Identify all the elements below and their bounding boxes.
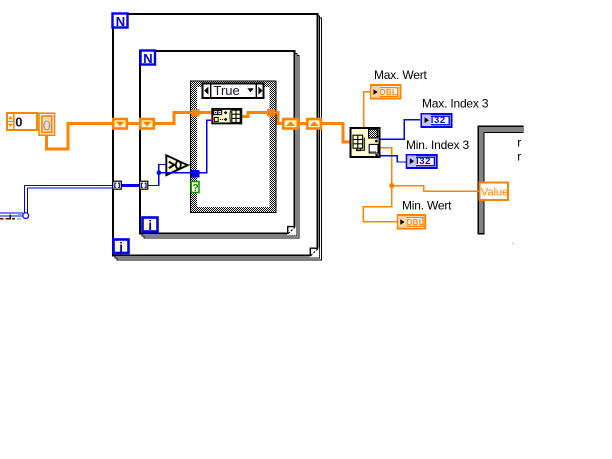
- svg-text:0: 0: [43, 118, 51, 134]
- case selector label "True": [203, 83, 264, 98]
- red coercion marker: [211, 117, 214, 121]
- outer left shift register: [113, 119, 127, 129]
- outer loop stacked frame line 2: [117, 18, 322, 260]
- numeric control terminal: [7, 113, 37, 130]
- case blue tunnel: [191, 170, 199, 178]
- broken wire marks at left edge: [0, 212, 21, 220]
- blue 1D wire between loop tunnels: [121, 184, 140, 187]
- svg-text:I32: I32: [416, 156, 431, 167]
- outer for-loop border: [113, 14, 318, 256]
- inner loop stacked frame line 2: [144, 56, 299, 238]
- green boolean stub wire at comparison output: [188, 164, 192, 166]
- blue wire: junction to case blue tunnel: [158, 172, 191, 173]
- inner left shift register: [140, 119, 154, 129]
- svg-text:I32: I32: [431, 115, 446, 126]
- blue 2D-array wire from left edge: [0, 185, 113, 216]
- case structure hatched border: [191, 81, 276, 213]
- wire bend circle: [23, 213, 29, 219]
- blue wire: node to Max Index 3: [381, 119, 421, 140]
- svg-text:i: i: [148, 218, 152, 233]
- case left orange tunnel: [191, 109, 199, 117]
- blue wire: node to Min Index 3: [381, 155, 407, 163]
- svg-text:True: True: [214, 83, 240, 98]
- orange junction dot: [389, 183, 394, 188]
- svg-text:?: ?: [193, 183, 199, 194]
- case right orange tunnel: [267, 109, 275, 117]
- svg-text:DBL: DBL: [380, 88, 397, 97]
- svg-text:Value: Value: [481, 187, 508, 199]
- stray orange pixel: [512, 243, 514, 245]
- svg-text:Min. Index 3: Min. Index 3: [406, 138, 469, 152]
- outer loop stacked frame line 1: [115, 16, 320, 258]
- orange wire: between shift registers: [128, 122, 140, 125]
- inner loop i box: [143, 218, 158, 233]
- blue junction dot: [157, 170, 162, 175]
- inner right shift register: [283, 119, 298, 129]
- numeric constant 0: [39, 113, 55, 135]
- Max Index 3 I32 indicator: [422, 114, 452, 127]
- Array Max and Min node: [351, 128, 381, 157]
- Min Wert DBL indicator: [398, 215, 425, 229]
- inner loop page-fold corner: [287, 226, 296, 235]
- orange wire: constant to outer shift register: [45, 122, 113, 151]
- inner loop N box: [141, 51, 156, 66]
- orange wire: node min output down to junction and Min Wert: [363, 147, 398, 223]
- orange wire: outer shift register to Array Max Min node: [322, 122, 351, 144]
- svg-text:Min. Wert: Min. Wert: [402, 198, 452, 212]
- blue wire: case tunnel up to icon index input: [200, 120, 212, 174]
- Max Wert DBL indicator: [371, 85, 401, 99]
- inner loop indexing tunnel: [140, 181, 148, 189]
- orange wire: node to Max Wert indicator: [363, 91, 370, 127]
- outer loop indexing tunnel: [113, 181, 122, 189]
- blue scalar wire: inner tunnel to greater-than-zero: [148, 164, 167, 186]
- outer loop N box: [113, 14, 128, 29]
- orange wire: case right tunnel to inner right shift register: [276, 111, 284, 125]
- svg-text:DBL: DBL: [407, 218, 424, 227]
- case selector terminal: [191, 182, 199, 195]
- insert into array icon: [212, 109, 241, 124]
- greater-than-zero comparison: [166, 155, 187, 175]
- orange wire: case left tunnel to insert-array icon: [200, 111, 212, 114]
- Min Index 3 I32 indicator: [407, 155, 437, 168]
- inner loop stacked frame line 1: [142, 54, 297, 237]
- svg-text:0: 0: [15, 115, 22, 130]
- outer loop page-fold corner: [310, 247, 319, 257]
- svg-text:N: N: [143, 51, 152, 66]
- inner for-loop border: [140, 51, 295, 234]
- svg-text:r: r: [517, 149, 521, 163]
- svg-text:r: r: [517, 135, 521, 149]
- outer right shift register: [307, 119, 321, 129]
- Value property node: [480, 183, 509, 201]
- svg-text:Max. Index 3: Max. Index 3: [422, 97, 489, 111]
- svg-text:Max. Wert: Max. Wert: [374, 68, 428, 82]
- svg-text:i: i: [119, 240, 123, 255]
- orange wire: junction to Value property node: [391, 185, 479, 192]
- gray frame structure (right, partially visible): [478, 126, 524, 235]
- orange wire: icon to case right tunnel: [242, 111, 267, 118]
- svg-text:N: N: [116, 14, 125, 29]
- orange wire: inner shift register to case tunnel: [155, 111, 192, 125]
- outer loop i box: [114, 240, 129, 255]
- orange wire: between right shift registers: [299, 122, 307, 125]
